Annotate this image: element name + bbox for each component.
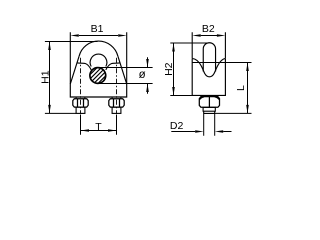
svg-text:B2: B2 <box>202 23 215 35</box>
H1 dimension line <box>49 42 51 114</box>
B2 extension lines <box>192 32 225 58</box>
right view nut <box>199 97 219 108</box>
D2 extension lines <box>204 114 215 136</box>
left stud end <box>76 107 85 113</box>
svg-text:D2: D2 <box>170 120 184 132</box>
rope circle <box>90 68 106 84</box>
D2 dimension line right tail <box>223 131 231 133</box>
svg-text:T: T <box>95 121 102 133</box>
right view body outline <box>192 58 225 95</box>
T extension lines <box>81 115 117 135</box>
left shank <box>76 97 85 99</box>
rope dia dimension arrows <box>147 57 149 94</box>
left bolt centerline <box>80 58 82 114</box>
right view stud <box>204 111 215 113</box>
B2 dimension line <box>201 35 217 37</box>
H2 dimension line <box>173 43 175 96</box>
svg-text:L: L <box>235 85 247 91</box>
right bolt centerline <box>116 58 118 114</box>
D2 dimension line left tail <box>171 131 195 133</box>
svg-text:ø: ø <box>139 69 146 81</box>
L top extension line <box>225 62 251 64</box>
rope dia top extension line <box>98 67 153 69</box>
saddle groove curve <box>192 58 225 76</box>
L bottom extension line <box>215 112 252 114</box>
U-bolt loop <box>203 43 215 72</box>
left view body outline <box>70 56 126 97</box>
right nut <box>109 99 124 107</box>
H2 bottom extension line <box>170 95 192 97</box>
svg-text:H2: H2 <box>163 62 175 76</box>
T dimension line <box>81 130 117 132</box>
U-bolt inner arch <box>90 54 107 66</box>
right view saddle far top edge <box>192 62 225 64</box>
right view washer <box>203 107 215 111</box>
H2 top extension line <box>170 42 207 44</box>
H1 top extension line <box>45 41 98 43</box>
H1 bottom extension line <box>45 112 76 114</box>
L dimension line <box>247 63 249 114</box>
svg-text:B1: B1 <box>91 23 104 35</box>
left view saddle V-groove rim <box>77 63 120 70</box>
right shank <box>112 97 121 99</box>
B1 extension lines <box>70 32 126 84</box>
U-bolt outer arch <box>79 41 118 56</box>
rope hatching <box>83 50 111 103</box>
svg-text:H1: H1 <box>39 70 51 84</box>
B1 dimension line <box>79 35 118 37</box>
right stud end <box>112 107 121 113</box>
rope dia bottom extension line <box>98 83 153 85</box>
left nut <box>73 99 88 107</box>
